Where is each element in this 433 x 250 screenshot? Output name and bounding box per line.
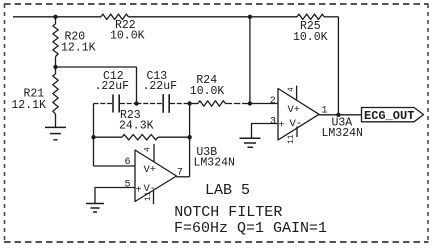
resistor R21 [53, 67, 58, 127]
node dot R23 right [187, 135, 191, 139]
op-amp U3B [135, 150, 177, 202]
svg-text:LM324N: LM324N [194, 157, 235, 170]
node dot top-left [53, 15, 57, 19]
svg-text:+: + [136, 186, 142, 197]
wire node to R24 [190, 103, 198, 105]
ground G1 [45, 127, 66, 139]
wire U3B pin5 [95, 188, 135, 204]
op-amp U3A [278, 89, 319, 141]
resistor R20 [53, 17, 58, 67]
svg-text:7: 7 [177, 168, 183, 179]
svg-text:ECG_OUT: ECG_OUT [364, 109, 414, 123]
capacitor C12 [113, 95, 119, 113]
node dot R24 right [248, 101, 252, 105]
ground G2 [86, 204, 104, 213]
resistor R24 [198, 101, 226, 106]
svg-text:10.0K: 10.0K [110, 29, 145, 42]
wire node to U3A pin2 [250, 103, 278, 105]
wire C12 to mid node [120, 103, 137, 105]
svg-text:6: 6 [125, 157, 131, 168]
wire U3B output [176, 176, 189, 178]
svg-text:.22uF: .22uF [95, 80, 130, 93]
svg-text:.22uF: .22uF [143, 80, 178, 93]
wire C13 to node [170, 103, 190, 105]
wire R23 left lead [94, 136, 123, 138]
wire R23 right lead [158, 136, 190, 138]
wire feedback right vertical [337, 17, 339, 115]
resistor R22 [101, 14, 129, 19]
svg-text:NOTCH FILTER: NOTCH FILTER [174, 204, 282, 221]
node dot top-right [248, 15, 252, 19]
svg-text:V+: V+ [144, 164, 157, 176]
wire R24 to right node [226, 103, 250, 105]
svg-text:V+: V+ [288, 104, 301, 116]
svg-text:5: 5 [125, 180, 131, 191]
wire cap row left lead [94, 103, 113, 105]
wire twin-T left vertical [93, 104, 95, 167]
ECG_OUT tag outline [362, 108, 424, 122]
wire node row2 horizontal [56, 66, 137, 68]
wire R25 to right corner [324, 16, 338, 18]
resistor R25 [297, 14, 324, 19]
node dot U3A out [336, 113, 340, 117]
svg-text:3: 3 [270, 117, 276, 128]
node dot R20/R21 [53, 65, 57, 69]
svg-text:LAB 5: LAB 5 [205, 182, 250, 199]
pin 4 stub U3A [296, 86, 298, 100]
wire row2 vertical drop [136, 67, 138, 104]
svg-text:4: 4 [144, 147, 153, 152]
ground G3 [240, 138, 261, 147]
node dot R23 left [91, 135, 95, 139]
node dot cap mid [134, 101, 138, 105]
svg-text:2: 2 [270, 96, 276, 107]
wire top rail left segment [13, 16, 101, 18]
wire to U3B pin6 [94, 165, 136, 167]
svg-text:4: 4 [287, 87, 296, 92]
svg-text:F=60Hz Q=1 GAIN=1: F=60Hz Q=1 GAIN=1 [174, 220, 327, 237]
capacitor C13 [163, 94, 169, 113]
wire U3A output [319, 114, 362, 116]
pin 4 stub U3B [153, 144, 155, 163]
svg-text:10.0K: 10.0K [293, 31, 328, 44]
svg-text:10.0K: 10.0K [190, 85, 225, 98]
resistor R23 [122, 135, 158, 140]
svg-text:12.1K: 12.1K [11, 99, 46, 112]
svg-text:11: 11 [144, 191, 153, 201]
svg-text:V-: V- [290, 118, 303, 130]
wire top rail middle segment [129, 16, 250, 18]
svg-text:24.3K: 24.3K [119, 119, 154, 132]
svg-text:1: 1 [322, 106, 328, 117]
svg-text:12.1K: 12.1K [61, 41, 96, 54]
wire U3B feedback vertical [189, 104, 191, 177]
wire feedback left vertical [249, 17, 251, 104]
svg-text:+: + [279, 121, 285, 132]
pin 11 stub U3A [296, 127, 298, 138]
svg-text:11: 11 [287, 134, 296, 144]
pin 11 stub U3B [153, 191, 155, 205]
node dot C13 right [187, 101, 191, 105]
wire mid node to C13 [137, 103, 163, 105]
svg-text:LM324N: LM324N [322, 127, 363, 140]
wire top rail right segment [250, 16, 297, 18]
wire U3A pin3 [252, 124, 279, 139]
